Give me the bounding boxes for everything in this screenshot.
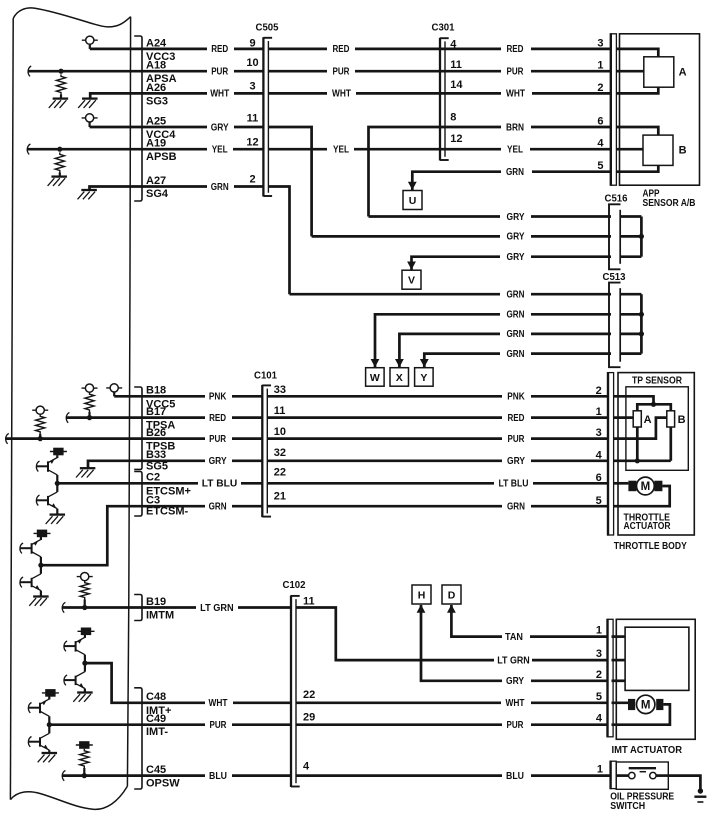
C516 output bus joining three GRY wires [621,215,642,218]
svg-text:B: B [678,414,686,426]
transistor Q3 upper driver for ETCSM- [34,532,51,534]
wire A19 (APSB) with continuation hook [27,144,30,154]
IMT actuator inner wiring pins 1 3 2 [612,635,626,638]
TP sensor top bus [637,404,671,411]
svg-text:PUR: PUR [508,434,526,445]
junction node on A18 wire [58,69,63,74]
TP sensor wiring RED pin 1 [614,416,633,419]
svg-text:RED: RED [209,413,226,424]
svg-text:BRN: BRN [506,122,524,133]
IMT actuator motor return loop PUR pin 4 [612,704,670,724]
svg-text:IMT-: IMT- [146,726,168,738]
svg-text:GRY: GRY [211,122,229,133]
svg-text:8: 8 [450,112,456,124]
junction node on GRY bottom bus [635,458,640,463]
wire RED: C505 to C301 [268,48,327,51]
svg-text:GRN: GRN [507,349,525,360]
wire C45 (OPSW) with continuation hook [62,770,65,780]
junction node at Q3/Q4 output [38,563,43,568]
svg-text:GRY: GRY [507,212,525,223]
wire B33 (SG5) to internal ground [88,461,205,468]
svg-text:3: 3 [249,80,255,92]
ECM connector bracket pins B18-B33 [134,387,142,469]
wire B19 (IMTM) with continuation hook [62,602,65,612]
ground below A18 resistor [53,97,69,99]
wire GRN row 2 from terminal W to C513 [375,314,500,367]
svg-text:YEL: YEL [212,145,228,156]
oil pressure switch box [616,762,668,789]
svg-text:C505: C505 [256,21,279,33]
wire B18 from pull-up to connector [114,395,205,398]
svg-text:ACTUATOR: ACTUATOR [624,521,672,532]
pull-up circle with resistor for B26 (TPSB) [32,409,48,411]
svg-text:GRN: GRN [211,182,229,193]
svg-text:1: 1 [597,763,603,775]
svg-text:B33: B33 [146,449,166,461]
svg-text:WHT: WHT [209,698,228,709]
wire from switch to ground [656,774,668,777]
svg-text:B26: B26 [146,427,166,439]
connector C101 [261,385,263,517]
svg-text:A18: A18 [146,60,166,72]
svg-text:C513: C513 [603,271,626,283]
svg-text:11: 11 [303,596,315,608]
svg-text:3: 3 [596,648,602,660]
connector C516 [609,204,621,269]
svg-text:A: A [679,67,687,79]
ECM connector bracket pins A24-A27 [134,36,142,201]
svg-text:BLU: BLU [209,771,227,782]
svg-text:A: A [644,414,652,426]
ground below A19 resistor [51,175,66,177]
svg-text:GRN: GRN [507,310,525,321]
wire BLU: C102 pin 4 to oil pressure switch pin 1 [296,774,502,777]
svg-text:PUR: PUR [211,67,229,78]
svg-text:GRN: GRN [507,329,525,340]
APP sensor connector [611,34,617,185]
junction node on C516 bus [639,234,644,239]
TP sensor inner box [626,387,688,471]
wire YEL: C505 to C301 [268,148,327,151]
terminal box X [390,368,409,387]
svg-text:RED: RED [507,44,524,55]
svg-text:PUR: PUR [507,720,525,731]
ground for SG4 [81,189,97,191]
APP sensor A wiring [616,49,658,57]
svg-text:GRY: GRY [506,676,524,687]
transistor Q6 lower driver for IMT+ with ground [84,663,86,672]
wire RED: C301 to APP sensor pin 3 [445,48,501,51]
wire C3 (ETCSM-) from transistor pair up to connector [41,506,205,565]
ground for SG3 [82,97,98,99]
svg-text:C49: C49 [146,713,166,725]
wire A18 (APSA) with continuation hook [28,66,31,76]
svg-text:PUR: PUR [333,67,351,78]
svg-text:W: W [370,372,380,384]
svg-text:11: 11 [247,113,259,125]
wire GRN: APP sensor pin 5 to terminal U [412,172,501,190]
terminal box V [402,270,421,289]
APP sensor element B box [643,135,673,165]
svg-text:TAN: TAN [505,632,523,643]
wire WHT: C505 to C301 [268,92,327,95]
svg-text:C2: C2 [146,472,160,484]
wire A25 from pull-up to connector [90,126,207,129]
wire GRN row 1 to C513 [290,293,501,296]
connector C102 [290,595,292,787]
svg-text:X: X [396,372,403,384]
C513 output bus joining four GRN wires [621,293,642,296]
svg-text:GRN: GRN [209,502,227,513]
wire YEL: C301 to APP sensor pin 4 [445,148,501,151]
TP sensor resistor element A [633,411,641,427]
svg-text:4: 4 [303,761,310,773]
wire A24 from pull-up to connector bracket [90,48,207,51]
svg-text:33: 33 [274,384,286,396]
svg-text:29: 29 [303,712,315,724]
svg-text:4: 4 [596,713,603,725]
svg-text:10: 10 [246,57,258,69]
wire GRY row 3 from terminal V corner to C516 [412,257,501,270]
svg-text:1: 1 [596,625,602,637]
svg-text:A26: A26 [146,82,166,94]
wire LT BLU: C101 to throttle body pin 6 [267,482,494,485]
svg-text:BLU: BLU [506,771,524,782]
junction node on C49 wire [47,722,52,727]
terminal box D [442,585,461,604]
transistor Q2 lower driver for ETCSM+ with ground [56,483,58,492]
svg-text:ETCSM-: ETCSM- [146,505,189,517]
wire C49 (IMT-) from transistor pair to connector [49,723,205,726]
junction node on B19 wire [82,605,87,610]
svg-text:C101: C101 [254,369,277,381]
junction nodes on C513 bus [639,312,644,317]
svg-text:C48: C48 [146,691,166,703]
TP sensor wiring GRY pin 4 bottom bus [614,459,671,462]
junction node on C45 wire [82,773,87,778]
svg-text:Y: Y [420,372,427,384]
wire GRN row 3 from terminal X to C513 [399,334,500,367]
throttle body connector [608,373,614,535]
wire GRY: C101 to throttle body pin 4 [267,459,502,462]
svg-text:B17: B17 [146,406,166,418]
svg-text:YEL: YEL [333,145,349,156]
svg-text:C45: C45 [146,764,166,776]
svg-text:14: 14 [450,79,463,91]
svg-text:B: B [679,145,687,157]
throttle actuator motor return loop GRN pin 5 [614,486,670,506]
connector C505 [262,37,264,196]
svg-text:A25: A25 [146,115,166,127]
wire BRN: vertical feed and C301 pin 8 to APP sensor pin 6 [369,127,502,217]
resistor to ground on A18 (APSA) [56,74,65,94]
junction node at Q5/Q6 output [82,661,87,666]
svg-text:GRN: GRN [507,290,525,301]
pull-up circle with resistor for B17 (TPSA) [82,387,98,389]
supply square with resistor pull-up for C45 (OPSW) [76,744,93,746]
transistor Q7 upper driver for IMT- [42,692,59,694]
arrow into terminal V [407,262,416,270]
arrow into terminal X [395,359,404,367]
svg-text:H: H [418,590,426,602]
svg-text:GRY: GRY [209,456,227,467]
junction node on B17 wire [87,415,92,420]
svg-text:WHT: WHT [506,698,525,709]
svg-text:A19: A19 [146,138,166,150]
svg-text:PUR: PUR [507,67,525,78]
oil pressure switch contact bar [629,767,656,769]
transistor Q4 lower driver for ETCSM- with ground [40,565,42,574]
terminal box H [412,585,431,604]
terminal box W [366,368,385,387]
wire GRN from C505 pin 2 turning down to C513 row 1 [268,187,289,295]
svg-text:RED: RED [211,44,228,55]
svg-text:SG3: SG3 [146,95,168,107]
wire B17 (TPSA) with continuation hook [66,412,69,422]
IMT actuator outer box [616,619,695,739]
svg-text:THROTTLE BODY: THROTTLE BODY [614,540,687,552]
transistor Q5 upper driver for IMT+ [78,630,95,632]
svg-text:WHT: WHT [506,89,525,100]
svg-text:GRY: GRY [507,456,525,467]
wire A27 (SG4) to internal ground [90,187,208,190]
svg-text:2: 2 [596,669,602,681]
junction node on C2 wire [55,481,60,486]
wire GRY from C505 pin 11 turning down to C516 row 2 [268,127,311,236]
svg-text:U: U [409,195,417,207]
throttle actuator motor [614,482,629,485]
wire A26 (SG3) to internal ground [90,93,207,98]
svg-text:C301: C301 [432,22,455,34]
svg-text:B18: B18 [146,385,166,397]
wire B26 (TPSB) with continuation hook [6,433,9,443]
connector C301 [439,38,441,161]
svg-text:C516: C516 [605,193,628,205]
wire WHT: C301 to APP sensor pin 2 [445,92,501,95]
wire LT GRN: C102 pin 11 to IMT actuator pin 3 [296,608,494,661]
svg-text:C102: C102 [283,579,306,591]
TP sensor resistor element B [667,411,675,427]
svg-text:21: 21 [274,490,286,502]
svg-text:32: 32 [274,447,286,459]
svg-text:11: 11 [450,59,462,71]
junction node PNK on top bus [651,402,656,407]
TP sensor wiring PNK pin 2 [614,396,654,404]
svg-text:5: 5 [596,691,602,703]
svg-text:SWITCH: SWITCH [610,800,645,812]
pull-up circle for pin A25 (VCC4) [82,117,98,119]
svg-text:PUR: PUR [209,434,227,445]
wire GRN: C101 to throttle body pin 5 [267,505,502,508]
svg-text:LT BLU: LT BLU [202,479,238,490]
svg-text:SENSOR A/B: SENSOR A/B [643,197,696,209]
svg-text:LT BLU: LT BLU [499,479,529,490]
APP sensor B wiring [616,127,658,135]
svg-text:A24: A24 [146,37,167,49]
IMT actuator motor [612,701,629,704]
junction node on B26 wire [38,436,43,441]
resistor to ground on A19 (APSB) [55,152,64,172]
svg-text:IMT ACTUATOR: IMT ACTUATOR [612,744,683,756]
svg-text:M: M [641,700,651,712]
svg-text:B19: B19 [146,596,166,608]
svg-text:22: 22 [274,466,286,478]
IMT actuator connector [608,619,614,737]
wire GRY row 2 to C516 [312,235,500,238]
svg-text:RED: RED [508,413,525,424]
connector C513 [609,283,621,368]
svg-text:APSB: APSB [146,151,177,163]
TP sensor wiring PUR pin 3 wiper [614,418,667,439]
svg-text:GRN: GRN [506,167,524,178]
transistor Q1 upper driver for ETCSM+ [50,451,67,453]
pull-up circle for pin B18 (VCC5) [106,387,122,389]
svg-text:OPSW: OPSW [146,778,180,790]
svg-text:10: 10 [274,426,286,438]
svg-text:12: 12 [450,133,462,145]
ground for SG5 [80,467,96,469]
svg-text:PNK: PNK [209,392,227,403]
wire WHT: C102 pin 22 to IMT actuator pin 5 [296,701,501,704]
svg-text:SG4: SG4 [146,188,169,200]
svg-text:22: 22 [303,689,315,701]
APP sensor A/B outer box [620,34,700,185]
svg-text:YEL: YEL [507,145,523,156]
oil pressure switch contacts [616,774,628,777]
ECM connector bracket pins C2-C3 [134,472,142,517]
svg-text:TP SENSOR: TP SENSOR [632,374,682,386]
svg-text:PNK: PNK [507,392,525,403]
svg-text:RED: RED [333,44,350,55]
wire PUR: C101 to throttle body pin 3 [267,437,502,440]
svg-text:D: D [448,590,456,602]
oil pressure switch connector [611,761,617,788]
svg-text:GRY: GRY [507,232,525,243]
ECM module torn-paper outline [13,8,130,27]
svg-text:9: 9 [249,37,255,49]
wire PUR: C505 to C301 [268,70,327,73]
svg-text:PUR: PUR [210,720,228,731]
svg-text:GRY: GRY [507,252,525,263]
ECM connector bracket pin B19 [134,595,142,621]
arrow into terminal U [408,182,417,190]
wire C48 (IMT+) from transistor pair to connector [85,663,205,703]
arrow into terminal Y [420,359,429,367]
arrow out of TAN row into terminal D [447,605,456,613]
terminal box Y [415,368,434,387]
terminal box U [403,191,422,210]
pull-up circle with resistor for B19 (IMTM) [77,576,93,578]
wire PUR: C301 to APP sensor pin 1 [445,70,501,73]
wire PNK: C101 to throttle body pin 2 [267,395,502,398]
svg-text:11: 11 [274,405,286,417]
svg-text:A27: A27 [146,175,166,187]
pull-up circle for pin A24 (VCC3) [82,39,98,41]
svg-text:V: V [408,275,415,287]
throttle body outer box [618,373,694,535]
arrow out of GRY row into terminal H [417,605,426,613]
svg-text:LT GRN: LT GRN [497,655,530,666]
svg-text:WHT: WHT [210,89,229,100]
junction node on A19 wire [57,147,62,152]
IMT actuator inner solenoid box [625,627,689,690]
wire GRY from terminal H to IMT actuator pin 2 [421,605,502,681]
svg-text:IMTM: IMTM [146,610,174,622]
ECM connector bracket pins C48-C45 [134,688,142,789]
svg-text:LT GRN: LT GRN [200,603,234,614]
wire C2 (ETCSM+) from transistor pair to connector [57,482,198,485]
wire PUR: C102 pin 29 to IMT actuator pin 4 [296,723,502,726]
svg-text:2: 2 [249,173,255,185]
arrow into terminal W [371,359,380,367]
svg-text:WHT: WHT [332,89,351,100]
wire GRY row 1 to C516 [369,215,501,218]
wire TAN from terminal D to IMT actuator pin 1 [451,605,502,637]
svg-text:12: 12 [246,136,258,148]
svg-text:GRN: GRN [507,502,525,513]
transistor Q8 lower driver for IMT- with ground [48,725,50,734]
wire RED: C101 to throttle body pin 1 [267,416,502,419]
svg-text:M: M [641,481,651,493]
chassis ground at oil pressure switch [698,788,703,793]
oil pressure switch actuation dash [640,771,646,773]
APP sensor element A box [644,57,674,87]
wire GRN row 4 from terminal Y to C513 [424,354,500,368]
